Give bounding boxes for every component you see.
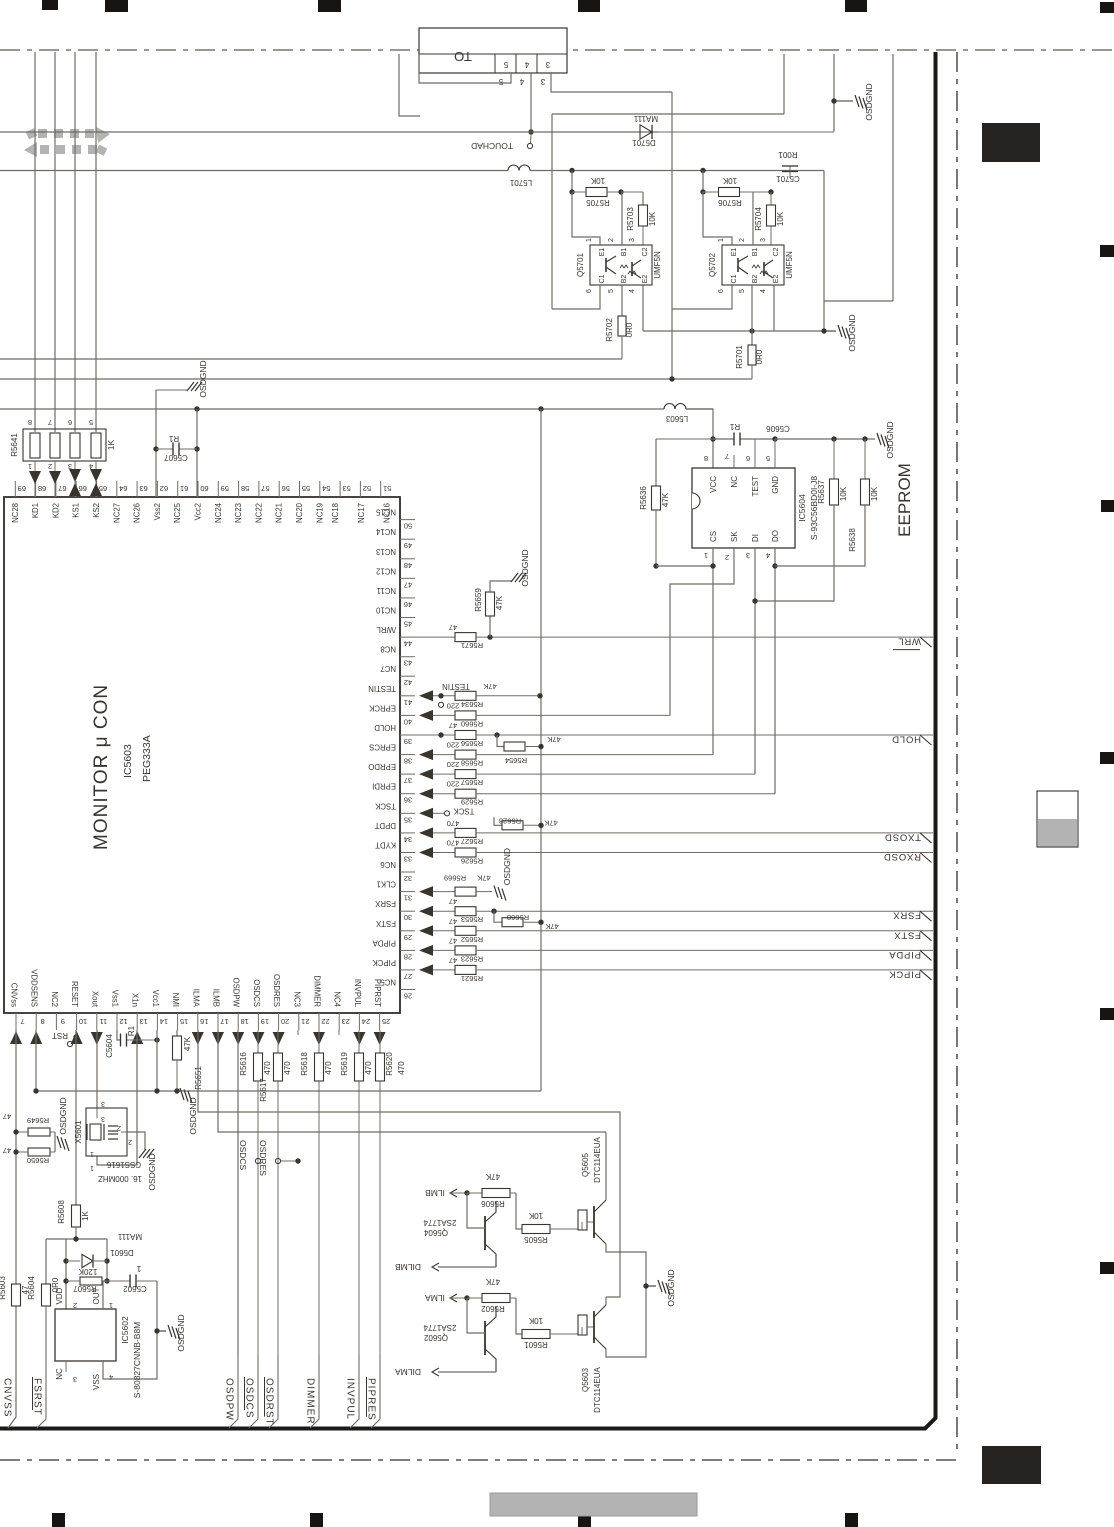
wire Q5603 collector up [605,1297,607,1305]
registration mark top 4 [578,0,600,12]
registration mark right 1 [1100,2,1114,13]
IC5603 pin 11 tick [96,1013,98,1030]
node y331 x824 [821,328,826,333]
svg-text:C2: C2 [642,247,649,256]
svg-text:56: 56 [282,484,290,493]
svg-text:ILMB: ILMB [212,989,221,1007]
svg-text:3: 3 [760,238,767,242]
svg-text:470: 470 [447,819,460,828]
node x656 y566 [653,563,658,568]
registration mark bottom 2 [310,1513,323,1527]
svg-text:OSDGND: OSDGND [58,1097,68,1134]
pin 11 down arrow [91,1032,103,1045]
wire Vss2 column [155,390,157,497]
svg-text:40: 40 [404,717,412,726]
resistor R5629 220 [455,789,476,798]
svg-text:1: 1 [90,1150,94,1157]
pin 37 direction arrow [419,769,433,780]
diode D5601 MA111 [66,1260,80,1262]
svg-text:1K: 1K [106,439,116,450]
pin 13 up arrow [131,1031,143,1044]
svg-text:R5703: R5703 [626,207,635,231]
svg-text:62: 62 [160,484,168,493]
svg-text:MONITOR μ CON: MONITOR μ CON [91,684,112,850]
svg-text:33: 33 [404,855,412,864]
registration mark top 3 [318,0,341,12]
svg-text:55: 55 [302,484,310,493]
node y1239 x76 [73,1236,78,1241]
wire bus y=132 TOUCHAD line [0,131,658,133]
svg-text:5: 5 [89,418,93,427]
inductor L5701 [508,165,530,171]
IC5603 pin 62 tick [156,481,158,497]
mid terminal OSDCS [255,1158,260,1163]
node ILMA [464,1295,469,1300]
node DI y601 [752,598,757,603]
svg-text:KS1: KS1 [72,503,81,518]
node WRL x490 [487,634,492,639]
crystal X5601 box [86,1108,127,1156]
svg-text:CLK1: CLK1 [376,880,396,889]
wire DILMB [438,1266,496,1268]
svg-text:R5637: R5637 [817,480,826,504]
wire Q5701 B1 up [621,192,623,245]
node R5706 right [768,189,773,194]
svg-text:R5641: R5641 [10,433,19,457]
pin 16 down arrow [192,1032,204,1045]
capacitor C5604 with R1 [120,1034,122,1047]
pin 30 direction arrow [419,906,433,917]
resistor R5616 470 [257,1030,259,1053]
wire x703 drop [702,171,704,193]
svg-text:10K: 10K [776,211,785,226]
wire bus y=170 L5701 line right segment [530,170,824,172]
resistor R5703 10K vertical [642,192,644,205]
resistor R5636 47K [655,439,657,486]
svg-text:R5626: R5626 [461,857,483,866]
svg-text:47K: 47K [183,1036,192,1051]
flag INVPUL bottom [350,1355,359,1428]
svg-text:ILMA: ILMA [191,989,200,1008]
svg-text:220: 220 [447,701,460,710]
wire key column x=96 [95,52,97,432]
svg-text:67: 67 [58,484,66,493]
svg-text:9: 9 [61,1017,65,1026]
svg-text:26: 26 [404,992,412,1001]
svg-text:EPRCS: EPRCS [369,743,396,752]
svg-text:6: 6 [586,289,593,293]
wire pin7 CNVss column [8,1030,16,1428]
IC5603 pin 66 tick [75,481,77,497]
svg-text:NC11: NC11 [377,586,396,595]
IC5603 pin 28 tick [400,949,415,951]
registration mark bottom 3 [578,1513,591,1527]
resistor R5653 47 [455,907,476,916]
R5641 element x=96 [91,433,101,458]
svg-text:2: 2 [608,238,615,242]
ground symbol y1091 [180,1088,184,1100]
svg-text:42: 42 [404,678,412,687]
svg-text:NC10: NC10 [375,606,396,615]
svg-text:OSDGND: OSDGND [176,1314,186,1351]
svg-text:10K: 10K [590,176,605,185]
svg-text:VCC: VCC [709,476,718,493]
node TESTIN left [438,693,443,698]
svg-text:R5606: R5606 [481,1199,505,1208]
node DO y566 [772,563,777,568]
pin 40 direction arrow [419,710,433,721]
IC5603 pin 34 tick [400,832,415,834]
registration mark bottom 1 [52,1513,65,1527]
svg-text:ILMB: ILMB [425,1188,445,1198]
svg-text:R5638: R5638 [848,528,857,552]
IC5603 pin 23 tick [338,1013,340,1030]
flag OSDCS bottom [249,1355,258,1428]
svg-text:S-80827CNNB-B8M: S-80827CNNB-B8M [132,1322,142,1399]
svg-text:OSDGND: OSDGND [198,360,208,397]
wire bus y=1091 [36,1090,541,1092]
svg-text:DIMMER: DIMMER [305,1378,316,1425]
svg-text:47K: 47K [544,818,557,827]
IC5603 pin 44 tick [400,636,415,638]
IC5603 pin 56 tick [278,481,280,497]
svg-text:NC8: NC8 [380,645,396,654]
svg-text:2: 2 [739,238,746,242]
svg-text:KD1: KD1 [31,503,40,518]
svg-text:38: 38 [404,757,412,766]
node C5606 left [710,436,715,441]
wire Q5702 C1 down [672,285,732,309]
svg-text:NC27: NC27 [112,503,121,523]
IC5603 pin 53 tick [339,481,341,497]
diode pair KS1 [74,461,76,497]
svg-text:47: 47 [449,897,457,906]
svg-text:10: 10 [79,1017,87,1026]
svg-text:Q5701: Q5701 [576,252,585,277]
wire connector pin4 down to TOUCHAD node [530,73,532,132]
svg-text:120K: 120K [78,1267,97,1276]
svg-text:IC5603: IC5603 [122,744,134,778]
wire SK jog to EPRCK row [670,548,734,715]
node y1091 x157 [154,1088,159,1093]
node R5649 left [13,1129,18,1134]
svg-text:31: 31 [404,894,412,903]
svg-text:KYDT: KYDT [375,841,396,850]
wire Q5702 B2 to R5701 [751,285,753,345]
svg-text:23: 23 [342,1017,350,1026]
svg-text:52: 52 [363,484,371,493]
IC5603 pin 19 tick [257,1013,259,1030]
node y439 x834 [831,436,836,441]
svg-text:R1: R1 [729,422,740,431]
crystal load caps [108,1125,118,1127]
transistor array Q5701 UMF5N body [590,245,652,285]
node x=672 y=379 [669,376,674,381]
node TOUCHAD junction [528,129,533,134]
svg-text:PIPRES: PIPRES [366,1378,377,1421]
svg-text:65: 65 [99,484,107,493]
registration mark right 5 [1100,1008,1114,1020]
svg-text:NC4: NC4 [333,991,342,1007]
svg-text:47: 47 [449,956,457,965]
svg-text:FSTX: FSTX [375,919,396,928]
svg-text:470: 470 [283,1061,292,1075]
IC5603 pin 20 tick [278,1013,280,1030]
node x66 y1261 [63,1258,68,1263]
svg-text:OSDGND: OSDGND [864,83,874,120]
inductor L5603 [664,404,686,409]
svg-text:VSS: VSS [92,1374,101,1390]
wire pin14 Vcc1 column [156,1030,158,1091]
wire Q5702 B1 up [752,192,754,245]
svg-text:6: 6 [746,454,750,463]
svg-text:14: 14 [160,1017,168,1026]
svg-text:19: 19 [261,1017,269,1026]
svg-text:TESTIN: TESTIN [442,682,470,691]
IC5603 pin 51 tick [380,481,382,497]
page border frame right and bottom [0,52,936,1429]
svg-text:35: 35 [404,815,412,824]
connector pin cell dividers [494,54,496,73]
flag FSRX [920,911,932,921]
svg-text:2: 2 [128,1138,132,1145]
svg-text:20: 20 [281,1017,289,1026]
svg-text:2: 2 [73,1301,77,1310]
wire y566 CS link [656,565,713,567]
wire Q5701 E2 down to gnd bus [642,285,644,331]
svg-text:3: 3 [73,1375,77,1384]
svg-text:0R0: 0R0 [625,322,634,337]
svg-text:HOLD: HOLD [374,723,396,732]
IC5603 pin 59 tick [217,481,219,497]
IC5603 pin 31 tick [400,891,415,893]
svg-text:13: 13 [140,1017,148,1026]
wire DO down to EPRDI row [774,548,776,794]
IC5603 pin 63 tick [136,481,138,497]
svg-text:NC17: NC17 [357,503,366,523]
svg-text:R1: R1 [168,434,179,443]
IC5603 pin 36 tick [400,793,415,795]
IC5603 pin 46 tick [400,597,415,599]
registration mark top 5 [845,0,867,12]
registration mark right 3 [1101,500,1114,512]
IC5603 pin 69 tick [14,481,16,497]
wire pin12 Vss1 to C5604 [117,1030,120,1040]
svg-text:3: 3 [629,238,636,242]
svg-text:E2: E2 [773,275,780,284]
IC5603 pin 22 tick [318,1013,320,1030]
svg-text:OSDGND: OSDGND [666,1269,676,1306]
fold dash-dot line right [956,52,958,1453]
capacitor C5602 [107,1280,130,1282]
IC5603 pin 48 tick [400,558,415,560]
wire x46 FSRST column upper [45,1239,47,1285]
svg-text:R5668: R5668 [507,913,529,922]
IC5603 pin 65 tick [96,481,98,497]
wire bus y=409 right of coil [686,408,713,410]
pin 41 direction arrow [419,690,433,701]
svg-text:C1: C1 [731,274,738,283]
connector TO touch panel body [419,28,567,73]
svg-text:36: 36 [404,796,412,805]
svg-text:PIPDA: PIPDA [372,938,396,947]
svg-text:C5607: C5607 [164,453,188,462]
resistor R5603 47 [15,1265,17,1285]
svg-text:NC3: NC3 [292,991,301,1007]
wire y=301 link [824,300,893,302]
wire vertical x=784 top [783,54,785,114]
IC5603 pin 60 tick [197,481,199,497]
svg-text:3: 3 [101,1100,105,1107]
svg-text:OSDPW: OSDPW [232,978,241,1008]
IC5603 pin 18 tick [237,1013,239,1030]
node R5628 on x541 rail [538,823,543,828]
IC5603 pin 52 tick [359,481,361,497]
pin 33 direction arrow [419,847,433,858]
svg-text:10K: 10K [648,211,657,226]
svg-text:470: 470 [263,1061,272,1075]
IC5603 pin 15 tick [177,1013,179,1030]
resistor R5654 47K [497,735,504,747]
svg-text:R5605: R5605 [524,1235,548,1244]
svg-text:R5652: R5652 [461,935,483,944]
svg-text:1: 1 [136,1264,141,1273]
wire pin16 ILMA route [198,1030,620,1297]
transistor array Q5702 UMF5N body [722,245,784,285]
node y170 x703 [700,168,705,173]
resistor R5623 47 [455,946,476,955]
pin 38 direction arrow [419,749,433,760]
svg-text:D5601: D5601 [110,1248,134,1257]
svg-text:C5606: C5606 [766,424,790,433]
svg-text:UMF5N: UMF5N [653,251,662,279]
node R5706 left [700,189,705,194]
wire vertical x=552 from y114 bus [551,114,553,309]
node y331 x752 [749,328,754,333]
transistor symbol Q5701 b with bias resistors [631,262,633,276]
ground OSDGND near Vss2 [156,389,188,391]
svg-text:Q5604: Q5604 [423,1228,448,1237]
svg-text:DTC114EUA: DTC114EUA [593,1367,602,1413]
IC5603 pin 40 tick [400,714,415,716]
IC5603 pin 17 tick [217,1013,219,1030]
resistor R5650 [28,1148,50,1156]
svg-text:INVPUL: INVPUL [353,979,362,1008]
svg-text:16: 16 [200,1017,208,1026]
svg-text:NC19: NC19 [315,503,324,523]
node y1091 x177 [174,1088,179,1093]
grey rectangle bottom center [490,1493,697,1516]
wire bus y=114 [552,113,784,115]
svg-text:EPRDO: EPRDO [368,762,396,771]
svg-text:5: 5 [766,454,770,463]
svg-text:Q5603: Q5603 [581,1367,590,1392]
svg-text:E2: E2 [642,275,649,284]
resistor R5617 470 [277,1030,279,1053]
svg-text:R5634: R5634 [461,700,483,709]
svg-text:24: 24 [362,1017,370,1026]
svg-text:1: 1 [586,238,593,242]
svg-text:47: 47 [404,580,412,589]
pin 35 TSCK arrow [419,808,433,819]
svg-text:TXOSD: TXOSD [884,831,921,842]
IC5603 pin 37 tick [400,773,415,775]
svg-text:Xout: Xout [90,991,99,1008]
svg-text:47: 47 [449,721,457,730]
svg-text:PEG333A: PEG333A [141,735,153,782]
svg-text:R5620: R5620 [385,1052,394,1076]
svg-text:5: 5 [503,60,508,69]
svg-text:EPRCK: EPRCK [368,703,396,712]
svg-text:30: 30 [404,913,412,922]
pin 28 direction arrow [419,945,433,956]
svg-text:RXOSD: RXOSD [883,851,921,862]
node R5650 left [13,1149,18,1154]
svg-text:PIPRST: PIPRST [373,979,382,1007]
svg-text:OSDGND: OSDGND [188,1097,198,1134]
wire pin13 X1n column [97,1030,137,1165]
IC5603 pin 21 tick [298,1013,300,1030]
svg-text:Vcc1: Vcc1 [151,990,160,1007]
svg-text:R5603: R5603 [0,1276,7,1300]
svg-text:NC23: NC23 [234,503,243,523]
svg-text:220: 220 [447,760,460,769]
svg-text:TSCK: TSCK [453,806,475,815]
IC5603 pin 33 tick [400,852,415,854]
svg-text:DILMB: DILMB [395,1262,421,1272]
svg-text:47: 47 [3,1112,11,1121]
digital transistor Q5605 DTC114EUA [578,1210,587,1230]
node y1091 x36 [33,1088,38,1093]
node x157 y1331 [154,1328,159,1333]
R5641 element x=55 [50,433,60,458]
pin 22 down arrow [313,1032,325,1045]
IC5603 pin 32 tick [400,871,415,873]
svg-text:17: 17 [220,1017,228,1026]
node RST [73,1034,78,1039]
wire Q5702 E1 to node [703,192,732,245]
svg-text:22: 22 [321,1017,329,1026]
ground symbol OSDGND top right [855,95,859,107]
transistor Q5604 2SA1774 [484,1216,486,1250]
svg-text:1: 1 [28,462,32,471]
resistor R5601 10K [516,1298,522,1334]
svg-text:2SA1774: 2SA1774 [423,1323,456,1332]
wire x107 branch [106,1239,108,1281]
svg-text:D5701: D5701 [632,138,656,147]
svg-text:NC14: NC14 [375,527,396,536]
svg-text:47K: 47K [483,682,496,691]
svg-text:10K: 10K [528,1211,543,1220]
IC5603 pin 42 tick [400,675,415,677]
capacitor C5606 [733,433,735,446]
svg-text:2SA1774: 2SA1774 [423,1218,456,1227]
svg-text:47K: 47K [477,874,490,883]
flag FSTX [920,931,932,941]
diode D5701 MA111 [637,131,658,133]
resistor R5705 10K [572,191,587,193]
svg-text:21: 21 [301,1017,309,1026]
wire Q5605 collector up [605,1132,607,1200]
svg-text:R5608: R5608 [57,1200,66,1224]
grey rotation arrow annotation [38,129,47,138]
svg-text:R5616: R5616 [239,1052,248,1076]
svg-text:NC6: NC6 [380,860,396,869]
resistor R5706 10K [703,191,719,193]
svg-text:C5701: C5701 [776,174,800,183]
svg-text:X1n: X1n [131,993,140,1007]
svg-text:R5669: R5669 [444,874,466,883]
